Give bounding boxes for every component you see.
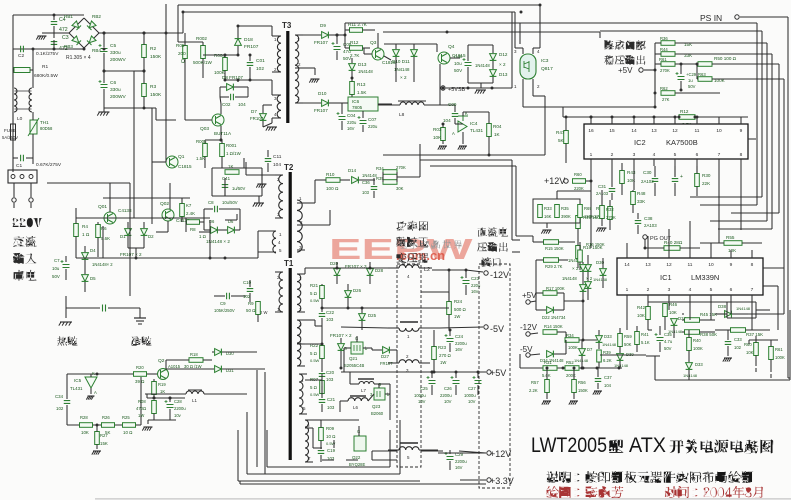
svg-text:1.5K: 1.5K [357,90,367,95]
diode D1 FR107 [125,229,132,236]
svg-text:16V: 16V [455,465,463,470]
svg-text:C8: C8 [208,200,214,205]
svg-text:1W: 1W [440,360,446,365]
svg-text:T1: T1 [284,259,294,268]
resistor R50 100ohm [698,62,712,67]
svg-text:R001: R001 [226,143,237,148]
svg-text:105K/250V: 105K/250V [214,308,235,313]
resistor R18 30ohm/1W [189,358,203,363]
label jiaoliu [13,236,25,247]
svg-text:D22 1N4734: D22 1N4734 [542,315,566,320]
wire r22 rows [305,343,322,345]
wire right bus from R36 [766,43,768,221]
bottom scan line [95,498,791,499]
svg-text:TH1: TH1 [40,120,49,125]
resistor R45 15K [685,318,700,323]
resistor R32 270K [608,207,613,220]
svg-text:C31: C31 [598,184,607,189]
svg-text:R32: R32 [606,207,614,212]
svg-text:IC2: IC2 [634,138,646,147]
svg-text:TL431: TL431 [70,386,83,391]
svg-text:1K: 1K [494,132,501,137]
wire R34 loop [382,172,384,182]
svg-text:+12V: +12V [490,449,511,459]
svg-text:270K: 270K [606,215,616,220]
ground C40 [476,89,486,91]
svg-text:R10: R10 [326,172,335,177]
svg-text:7: 7 [751,287,754,293]
terminal +12V [487,451,491,455]
svg-text:R21: R21 [310,283,319,288]
svg-text:5.6K: 5.6K [101,236,110,241]
svg-text:500K/1W: 500K/1W [193,60,213,65]
PFC core line 1 [400,321,418,323]
svg-text:R12: R12 [350,40,359,45]
transformer T2 core [289,172,292,258]
IC6 7805 [348,97,378,111]
svg-text:Q4: Q4 [448,44,455,50]
svg-text:50V: 50V [664,346,672,351]
svg-text:5K: 5K [558,138,565,143]
svg-text:1000u: 1000u [464,393,476,398]
diodes 1N4148 x2 left of IC1 [585,265,592,272]
capacitor C09 104 [452,114,459,117]
transformer T2 aux winding [272,231,276,253]
transistor Q03 BUT11A [212,114,224,126]
svg-text:27K: 27K [662,97,670,102]
svg-text:3: 3 [633,152,636,158]
diode D10 FR107 [322,100,329,107]
svg-text:D5: D5 [90,276,96,281]
svg-text:C24: C24 [455,334,464,339]
wire T2 aux loop [257,231,259,252]
resistor R1 [14,68,30,73]
svg-text:Q02: Q02 [160,201,169,207]
resistor R14 150K [543,330,557,335]
resistor R19 1K [152,382,157,395]
svg-text:BYQ28E: BYQ28E [349,462,366,467]
svg-text:5 Ω: 5 Ω [310,291,318,296]
svg-text:1N4148: 1N4148 [736,306,751,311]
svg-text:D7: D7 [251,109,257,114]
transformer L0 common-mode choke [12,70,14,88]
resistor R61b 100K [769,347,774,360]
ground under C11 [258,183,267,185]
wire AC line 2 [13,48,73,50]
svg-text:220u: 220u [347,120,357,125]
label shidian [14,270,25,281]
ground hot [65,296,67,318]
svg-text:R61: R61 [775,347,783,352]
svg-text:R38 50K: R38 50K [700,332,717,337]
svg-text:1.5K: 1.5K [196,156,205,161]
svg-text:RB1: RB1 [64,14,73,19]
svg-text:22K: 22K [702,181,711,186]
svg-text:10V: 10V [418,399,426,404]
svg-text:4: 4 [689,287,692,293]
svg-text:104: 104 [273,162,281,168]
svg-text:13: 13 [651,128,657,134]
transformer T1 sec winding 6-7 [305,420,309,462]
resistor R69 150K [578,205,583,218]
svg-text:-12V: -12V [490,270,509,280]
svg-text:D1: D1 [120,234,126,239]
svg-text:× 2: × 2 [400,75,407,80]
transistor Q02 C4138 [162,209,174,221]
svg-text:T3: T3 [282,21,292,30]
wire secondary top rail [305,267,397,269]
svg-text:50 Ω: 50 Ω [246,308,256,313]
transformer T3 secondary winding [295,35,299,103]
svg-text:16V: 16V [347,126,355,131]
wire under T2 [257,252,259,258]
svg-text:C25: C25 [420,386,428,391]
svg-text:Q1: Q1 [178,154,185,160]
wire opto pin3 to rail [514,12,516,48]
diodes 1N4148 x2 col [580,265,587,272]
opto IC3 Q817 [520,54,536,79]
inductor L7 [359,382,374,385]
resistor R05 200 [183,46,188,59]
junction dots extra [182,11,185,14]
PFC choke dashed box [397,264,421,467]
resistor R39 6.2K [597,350,602,362]
wire to plug [12,158,14,172]
wires Q3 Q4 bias [384,43,437,45]
svg-text:KA7500B: KA7500B [666,138,698,147]
svg-text:50V: 50V [688,84,696,89]
wire midfield horiz y160 [420,159,512,161]
resistor R23 270ohm/1W [432,347,437,360]
resistor R16 150K [576,246,581,259]
wire right of R25 [136,424,141,426]
title xing [609,439,623,453]
wire C11 column [243,158,245,168]
svg-text:150K: 150K [150,54,162,60]
capacitor C04 220u/16V [339,117,346,120]
capacitor C37 104 [595,379,602,382]
capacitor C05 47u/50V [334,47,341,50]
svg-text:Q03: Q03 [200,126,209,132]
svg-text:5 Ω: 5 Ω [310,385,318,390]
svg-text:2200u: 2200u [174,406,186,411]
svg-text:12: 12 [672,128,678,134]
diode D8 FR107 pair [227,84,234,91]
svg-text:R13: R13 [357,82,366,87]
diode D34 1N4148 [671,319,678,326]
winding 1 [399,328,419,331]
ground T3 pin4 [271,118,273,123]
svg-text:C28: C28 [174,399,182,404]
svg-text:5.1K: 5.1K [641,340,650,345]
wire IC1 top pin stubs up [626,243,628,250]
diode D25 [359,314,366,321]
svg-text:2.2K: 2.2K [529,388,538,393]
svg-text:R55: R55 [726,235,735,240]
svg-text:1W: 1W [138,413,144,418]
wire opto pin1 column [522,96,524,107]
svg-text:D33: D33 [604,334,612,339]
wire bottom nest outer [238,480,420,482]
ground R56 [570,400,578,402]
resistor R6 5.6K [96,225,101,238]
wire plug prongs [13,183,15,197]
wire R60 R61 loop [749,339,778,341]
svg-text:10 Ω: 10 Ω [123,430,133,435]
wire top-left loop [13,14,84,16]
diode D20 FR107 top [334,269,341,276]
svg-text:RB3: RB3 [64,44,73,49]
svg-text:D7: D7 [587,347,593,352]
capacitor C01 102 [247,63,254,66]
capacitor C23 220u/16V [463,281,470,284]
resistor R55 10K [724,241,742,246]
svg-text:R8: R8 [190,227,196,232]
svg-text:L7: L7 [361,388,366,393]
resistor R20 39ohm [134,372,147,377]
transformer T3 primary winding 3-4 [277,95,281,118]
svg-text:Q2: Q2 [158,358,165,364]
transformer T1 core [289,268,292,460]
ground under C28 [148,419,176,421]
diode D2 FR107 [141,229,148,236]
svg-text:× 2: × 2 [572,266,579,271]
svg-text:R46: R46 [669,302,678,307]
svg-text:200WV: 200WV [110,94,127,100]
svg-text:R15 150K: R15 150K [545,246,564,251]
resistor R35 390K [555,205,560,218]
svg-text:1N4148: 1N4148 [358,69,373,74]
wire x516 to interface [511,160,513,240]
terminal PG OUT [643,235,647,239]
wire IC2 pin stubs down [590,166,592,190]
svg-text:1N4148: 1N4148 [602,342,617,347]
svg-text:D13: D13 [358,62,367,67]
capacitor C20 103 [319,374,326,377]
svg-text:C1: C1 [16,163,22,169]
wire C40 box loop [468,44,493,46]
terminal -12V [484,271,488,275]
svg-text:B2060: B2060 [371,411,384,416]
svg-text:11: 11 [688,262,693,268]
wire +12V feed [372,450,397,452]
svg-text:C34: C34 [55,394,64,399]
svg-text:-5V: -5V [490,324,504,334]
svg-text:.com.cn: .com.cn [396,248,445,263]
svg-text:16V: 16V [455,347,463,352]
svg-text:R08: R08 [138,399,146,404]
diode D13 1N4148 [349,64,356,71]
wire from bridge to primary [165,4,167,158]
svg-text:C6: C6 [110,80,116,86]
diode D22 1N4734 [547,307,554,314]
svg-text:RB2: RB2 [92,14,101,19]
wire TL431 bottom rail [67,424,140,426]
subtitle huitu red [546,486,559,498]
resistor R08 470/1W [152,401,157,414]
svg-text:1000u: 1000u [414,393,426,398]
junction [53,14,56,17]
svg-text:3: 3 [668,287,671,293]
capacitor C1 [21,155,24,162]
IC4 TL431 [458,121,467,132]
svg-text:C38: C38 [644,216,653,221]
svg-text:D28: D28 [375,268,384,273]
svg-text:5A/250V: 5A/250V [2,135,18,140]
svg-text:R57: R57 [531,380,539,385]
svg-text:R42: R42 [637,305,646,310]
resistor R61 270K [661,62,675,67]
svg-text:102: 102 [243,294,251,299]
wire bottom nest inner [267,466,390,468]
diode D26 [345,291,352,298]
svg-text:10V: 10V [444,399,452,404]
svg-text:R1: R1 [42,64,48,70]
svg-text:C5: C5 [110,43,116,49]
diode D39 1N4148 [617,354,624,361]
svg-text:K7: K7 [186,203,192,208]
svg-text:T2: T2 [284,163,294,172]
svg-text:R47: R47 [556,130,565,135]
svg-text:L6: L6 [353,405,358,410]
svg-text:10K: 10K [637,313,645,318]
svg-text:1 Ω/1W: 1 Ω/1W [226,151,242,156]
svg-text:103: 103 [326,377,334,382]
wire left mid verticals [129,183,131,296]
resistor R22 5.1/0.5W [320,346,325,359]
svg-text:L0: L0 [17,116,23,122]
svg-text:200: 200 [178,51,186,56]
resistor R4 1ohm [74,224,79,237]
svg-text:4.7u: 4.7u [664,339,673,344]
ground right of C8 [254,202,264,204]
capacitor C30 2A102 [652,179,659,182]
wire L7 row [350,383,359,385]
capacitor C26 2200u/10V [453,381,460,384]
capacitor C24 2200u/16V [447,339,454,342]
wire x152 column [151,108,153,224]
wire IC2 right to bus [748,138,756,140]
svg-text:50K: 50K [624,342,632,347]
svg-text:C41: C41 [222,176,231,181]
svg-text:-12V: -12V [520,323,538,332]
capacitor C10 102 [247,289,254,292]
svg-text:2: 2 [647,287,650,293]
resistor R30 22K [695,174,700,187]
svg-text:1W: 1W [454,314,460,319]
svg-text:IC1: IC1 [660,273,672,282]
svg-text:LWT2005: LWT2005 [531,434,607,457]
svg-text:Q21: Q21 [349,356,358,361]
svg-text:10K: 10K [746,350,754,355]
wire q21 to L7 [343,348,345,372]
svg-text:R14 150K: R14 150K [544,324,563,329]
transistor Q1 C1815 [166,156,178,168]
svg-text:5.6K: 5.6K [542,373,551,378]
label PFC transformer [396,221,407,231]
IC2 KA7500B [584,124,748,159]
svg-text:C04: C04 [347,113,356,118]
resistor R2 150K [142,45,147,58]
svg-text:7805: 7805 [352,105,363,110]
svg-text:C10: C10 [243,280,252,285]
capacitor C5 330u/200WV [101,49,108,52]
wire right bus from R50 [778,64,780,213]
svg-text:C33: C33 [734,337,742,342]
svg-text:472: 472 [59,27,68,33]
svg-text:0.1K/275V: 0.1K/275V [36,51,59,57]
wire bottom bus of rectifier [104,107,156,109]
svg-text:C26: C26 [444,386,452,391]
svg-text:104: 104 [443,118,451,123]
subtitle date red [665,486,677,498]
transformer T1 sec winding 3-4 [297,320,301,366]
svg-text:D12: D12 [499,52,508,57]
svg-text:D26: D26 [353,288,362,293]
capacitor C28 2200u/10V [167,405,174,408]
svg-text:14: 14 [624,262,630,268]
svg-text:1N4148× 2: 1N4148× 2 [92,262,113,267]
inductor L6 [348,398,368,401]
svg-text:× 2: × 2 [499,62,506,67]
wire secondary r21 row [322,307,449,309]
svg-text:102: 102 [56,406,64,411]
resistor R41 5.1K [635,332,640,345]
svg-text:270K: 270K [396,165,406,170]
resistor R12 2.7K [679,115,695,120]
wire T2 feedback column [245,162,247,175]
svg-text:9: 9 [740,128,743,134]
svg-text:+5V: +5V [522,291,537,300]
svg-text:C30: C30 [643,170,652,175]
svg-text:2.4K: 2.4K [186,211,195,216]
resistor R04 1K [487,124,492,137]
capacitor C11 104 [265,159,272,162]
svg-text:390K: 390K [561,214,571,219]
svg-text:10V: 10V [468,399,476,404]
svg-text:0.67K/275V: 0.67K/275V [36,162,62,168]
svg-text:R05: R05 [176,43,185,48]
capacitor C36 103 [371,187,378,190]
resistor R26 5K [102,423,115,428]
svg-text:103: 103 [326,317,334,322]
svg-text:6.2K: 6.2K [603,358,612,363]
resistor R37 15K [731,328,746,333]
wire y355 run [600,354,646,356]
resistor R44 33K [661,52,675,57]
diode D33 1N4148 [596,336,603,343]
diode D33b 1N4148 [686,363,693,370]
transistor Q21 S2055N [351,342,363,354]
svg-text:Q817: Q817 [541,66,553,72]
ground near C3/C4 [42,32,54,34]
svg-text:L8: L8 [399,112,405,118]
wire mid horiz 198 [103,197,190,199]
svg-text:C22: C22 [326,310,335,315]
svg-text:-5V: -5V [520,345,533,354]
wire bridge bottom [83,48,85,49]
ground R57 [543,400,551,402]
svg-text:102: 102 [734,345,742,350]
svg-text:D9: D9 [320,23,326,28]
svg-text:+: + [680,174,683,180]
svg-text:LM339N: LM339N [691,273,719,282]
resistor R005 1.5K [203,144,208,157]
capacitor C6 330u/200WV [101,85,108,88]
svg-text:1N4148: 1N4148 [362,173,377,178]
terminal +3.3V [487,478,491,482]
svg-text:30K: 30K [396,186,404,191]
